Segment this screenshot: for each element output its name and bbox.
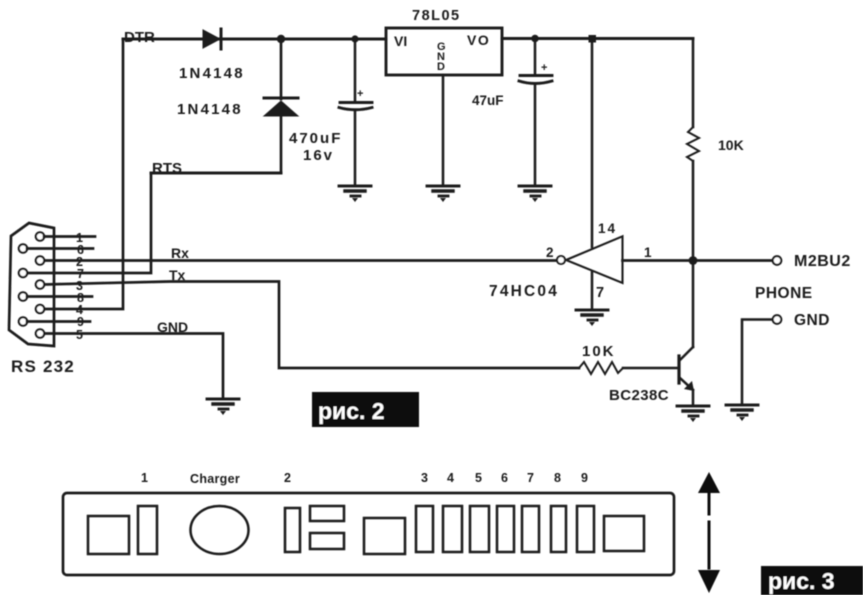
label Rx <box>171 245 189 261</box>
label 2 panel <box>284 471 291 485</box>
label pin 14 <box>598 221 617 236</box>
svg-text:4: 4 <box>447 471 454 485</box>
diode D1 1N4148 <box>203 29 221 49</box>
panel hole square left <box>88 516 129 554</box>
label 10K (R1) <box>718 137 744 153</box>
svg-text:5: 5 <box>76 328 83 342</box>
wire DTR rail to regulator input <box>123 38 386 41</box>
pin 1 <box>36 232 44 240</box>
pin 5 <box>36 329 44 337</box>
arrow down <box>698 522 720 593</box>
ground below regulator <box>427 186 459 202</box>
ground below GND wire <box>207 399 239 415</box>
diode D2 1N4148 <box>264 98 298 116</box>
fig label 3 box <box>761 566 863 595</box>
pin 4 <box>36 305 44 313</box>
svg-text:GND: GND <box>794 312 830 329</box>
pin 8 <box>19 292 27 300</box>
label 1 panel <box>141 471 148 485</box>
svg-text:Rx: Rx <box>171 245 189 261</box>
svg-text:6: 6 <box>501 471 508 485</box>
svg-text:7: 7 <box>596 285 604 301</box>
label pin 2 <box>546 245 554 260</box>
wire D2 vertical branch <box>280 39 283 173</box>
svg-text:10K: 10K <box>582 343 616 360</box>
label GND (serial) <box>157 319 188 335</box>
label PHONE <box>755 285 813 302</box>
pin 2 <box>36 256 44 264</box>
label pin 7 <box>596 285 604 301</box>
ground below inverter <box>576 310 608 326</box>
wire GND from pin 5 <box>44 334 223 398</box>
panel small rect top <box>310 506 344 521</box>
terminal GND phone <box>773 315 782 324</box>
pin 7 <box>19 269 27 277</box>
panel slot 1 <box>138 506 157 554</box>
panel slot 8 <box>551 506 566 552</box>
panel slot 2 <box>285 508 300 552</box>
svg-text:DTR: DTR <box>124 29 155 46</box>
label BC238C <box>609 387 669 404</box>
inverter U1 74HC04 <box>557 236 623 283</box>
wire phone GND to ground <box>742 320 772 405</box>
label 10K (R2) <box>582 343 616 360</box>
svg-text:7: 7 <box>527 471 534 485</box>
svg-text:2: 2 <box>546 245 554 260</box>
connector J1 RS232 outline <box>9 223 54 346</box>
wire regulator ground pin <box>442 75 445 185</box>
svg-text:47uF: 47uF <box>472 93 504 108</box>
labels 3-9 panel <box>421 471 588 485</box>
wire inverter output to M2SU2 terminal <box>623 259 773 262</box>
label Tx <box>169 267 186 283</box>
regulator U2 78L05 box <box>386 28 502 75</box>
wire emitter to ground <box>692 390 695 404</box>
wire DTR drop to pin 4 <box>44 39 123 309</box>
wire VO rail to R1 corner <box>502 37 693 40</box>
svg-text:BC238C: BC238C <box>609 387 669 404</box>
label M2SU2 <box>794 253 851 270</box>
wire Tx from pin 3 down and right to R2 <box>44 282 579 369</box>
panel small rect bottom <box>310 533 344 549</box>
node junction collector/output <box>689 256 698 265</box>
panel slot 3 <box>416 506 433 552</box>
label 47uF <box>472 93 504 108</box>
wire RTS drop to pin 7 <box>27 173 151 273</box>
svg-text:Tx: Tx <box>169 267 186 283</box>
label 1N4148 (D1) <box>179 65 245 82</box>
pin 9 <box>19 317 27 325</box>
node junction at C2 top <box>531 35 539 43</box>
wire Rx from pin 2 to inverter output <box>44 259 556 262</box>
ground below phone GND <box>726 405 758 421</box>
svg-text:VO: VO <box>467 32 490 48</box>
svg-text:рис. 2: рис. 2 <box>318 398 385 424</box>
resistor R2 10K horizontal <box>579 362 623 374</box>
label RTS <box>152 160 182 177</box>
fig label 2 box <box>312 392 419 427</box>
wire pin 9 stub <box>27 320 90 323</box>
capacitor C1 470uF <box>339 39 372 185</box>
svg-text:Charger: Charger <box>190 472 240 486</box>
wire pin7 to ground <box>591 272 594 308</box>
label 470uF 16v <box>289 130 342 164</box>
label pin 1 <box>644 245 652 260</box>
svg-text:1N4148: 1N4148 <box>177 101 243 118</box>
svg-text:78L05: 78L05 <box>412 8 461 24</box>
panel slot 7 <box>522 506 539 552</box>
wire pin 6 stub <box>27 247 93 250</box>
wire R2 to base <box>623 367 677 370</box>
svg-text:GND: GND <box>157 319 188 335</box>
svg-text:2: 2 <box>284 471 291 485</box>
panel slot 4 <box>443 506 462 552</box>
svg-text:1: 1 <box>141 471 148 485</box>
wire RTS horizontal <box>151 172 281 175</box>
svg-text:16v: 16v <box>303 147 334 164</box>
node junction at pin14 branch <box>589 35 597 43</box>
label 74HC04 <box>489 283 559 300</box>
panel slot 5 <box>470 506 489 552</box>
svg-text:D: D <box>437 61 445 73</box>
capacitor C2 47uF <box>519 39 552 186</box>
label DTR <box>124 29 155 46</box>
svg-text:5: 5 <box>475 471 482 485</box>
label Charger <box>190 472 240 486</box>
label 1N4148 (D2) <box>177 101 243 118</box>
svg-text:VI: VI <box>394 33 407 49</box>
panel square mid <box>364 518 405 554</box>
svg-text:1N4148: 1N4148 <box>179 65 245 82</box>
wire top rail corner to R1 <box>692 39 695 128</box>
terminal M2SU2 <box>773 256 782 265</box>
node junction at D2 top <box>277 35 285 43</box>
ground below C1 <box>339 186 371 202</box>
wire pin 8 stub <box>27 295 92 298</box>
panel circle charger <box>191 506 249 554</box>
panel square right <box>604 516 644 551</box>
svg-text:8: 8 <box>554 471 561 485</box>
svg-text:M2BU2: M2BU2 <box>794 253 851 270</box>
svg-text:RS 232: RS 232 <box>11 357 75 376</box>
resistor R1 10K vertical <box>687 127 699 161</box>
svg-text:10K: 10K <box>718 137 744 153</box>
svg-text:9: 9 <box>581 471 588 485</box>
svg-text:74HC04: 74HC04 <box>489 283 559 300</box>
ground below C2 <box>519 186 551 202</box>
arrow up <box>698 472 720 514</box>
node junction at C1 top <box>351 35 358 42</box>
wire R1 bottom to collector node <box>692 161 695 347</box>
pin 6 <box>19 244 27 252</box>
label GND (phone) <box>794 312 830 329</box>
panel outline fig3 <box>63 493 674 575</box>
ground below emitter <box>677 406 709 422</box>
svg-text:+: + <box>541 62 547 74</box>
pin number labels column <box>76 231 84 342</box>
svg-text:рис. 3: рис. 3 <box>768 568 835 594</box>
svg-text:+: + <box>357 88 363 100</box>
svg-text:1: 1 <box>644 245 652 260</box>
svg-text:3: 3 <box>421 471 428 485</box>
transistor Q1 BC238C <box>679 347 694 391</box>
svg-text:RTS: RTS <box>152 160 182 177</box>
panel slot 9 <box>577 506 594 552</box>
pin 3 <box>36 280 44 288</box>
svg-text:9: 9 <box>77 315 84 329</box>
label 78L05 <box>412 8 461 24</box>
svg-text:PHONE: PHONE <box>755 285 813 302</box>
panel slot 6 <box>497 506 514 552</box>
wire pin14 supply drop <box>591 39 594 248</box>
svg-text:14: 14 <box>598 221 617 236</box>
svg-text:470uF: 470uF <box>289 130 342 147</box>
label RS 232 <box>11 357 75 376</box>
wire pin 1 stub <box>44 235 95 238</box>
